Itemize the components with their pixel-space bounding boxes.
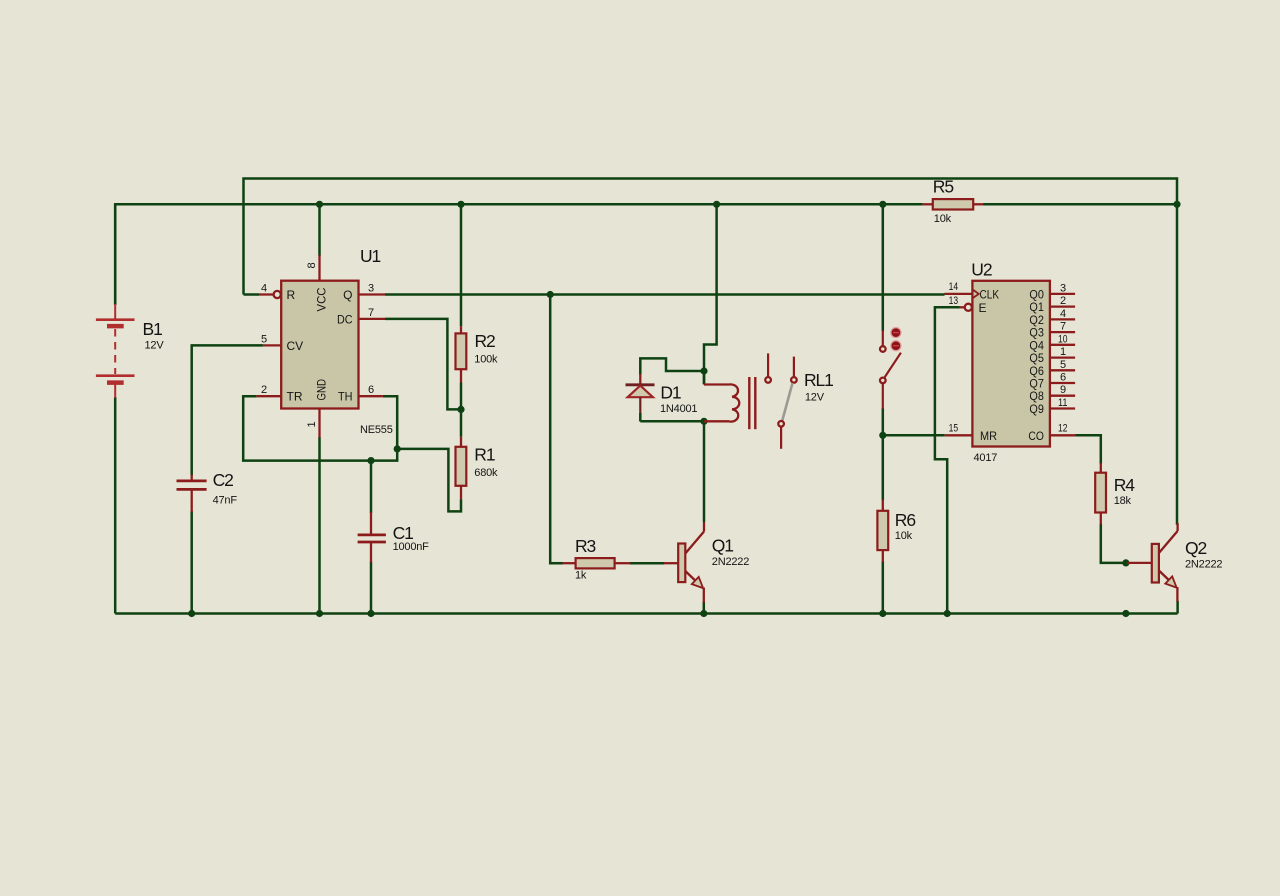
junction node ground rail / C2 (188, 610, 195, 617)
svg-text:3: 3 (368, 283, 374, 295)
wire MR pin15 horizontal (883, 434, 945, 437)
wire D1 top to relay junction (640, 358, 704, 374)
svg-text:B1: B1 (143, 319, 163, 339)
svg-text:U2: U2 (971, 260, 992, 280)
wire battery bottom to ground rail (114, 397, 117, 614)
resistor R3 (563, 558, 631, 568)
junction node switch / MR wire (879, 432, 886, 439)
junction node VCC rail / R2 (457, 201, 464, 208)
resistor R4 (1095, 463, 1106, 525)
svg-text:10k: 10k (934, 213, 952, 225)
diode D1 1N4001 (626, 374, 655, 421)
wire top rail 1 (R5 right to pin4 R net) (244, 179, 1178, 525)
relay RL1 NC contact (765, 353, 771, 382)
svg-text:4017: 4017 (974, 452, 998, 464)
pin 8 VCC stub (318, 255, 320, 281)
svg-text:7: 7 (368, 307, 374, 319)
transistor Q2 2N2222 (1127, 523, 1178, 602)
pin Q4 stub (pin 10) (1029, 333, 1075, 352)
svg-text:18k: 18k (1114, 495, 1132, 507)
svg-text:4: 4 (261, 283, 267, 295)
pin 4 R stub with inversion circle (259, 291, 281, 298)
wire CO pin12 to R4 (1075, 435, 1101, 464)
svg-text:VCC: VCC (315, 287, 329, 311)
capacitor C2 (177, 475, 207, 513)
svg-text:2N2222: 2N2222 (712, 556, 749, 568)
wire R1 bottom loop to TH net (396, 449, 461, 512)
switch bottom contact (880, 378, 886, 409)
wire U1 pin4 stub horizontal (244, 293, 260, 296)
pin 1 GND stub (318, 409, 320, 438)
svg-text:1: 1 (1060, 346, 1066, 358)
wire bottom ground rail (115, 612, 1177, 615)
svg-text:C1: C1 (393, 523, 414, 543)
junction node VCC rail / pin8 (316, 201, 323, 208)
pushbutton switch actuator dots (891, 328, 901, 351)
junction node TH vertical / R1 bottom branch (394, 445, 401, 452)
svg-text:12: 12 (1058, 423, 1068, 435)
IC U2 4017 body (972, 281, 1050, 447)
svg-text:D1: D1 (660, 383, 681, 403)
wire Q output net (pin3 to CLK) (385, 293, 945, 296)
svg-text:13: 13 (949, 295, 959, 307)
svg-text:RL1: RL1 (804, 370, 833, 390)
pin Q0 stub (pin 3) (1029, 282, 1075, 301)
junction node D1 top / relay coil top (700, 367, 707, 374)
wire R4 bottom to Q2 base (1101, 524, 1127, 563)
svg-text:680k: 680k (474, 467, 498, 479)
pin Q8 stub (pin 9) (1029, 384, 1075, 403)
pin 3 Q stub (359, 293, 386, 295)
wire E pin13 net down to ground (935, 307, 960, 613)
pin 7 DC stub (359, 318, 386, 320)
wire MR junction to R6 (882, 434, 885, 500)
svg-text:R5: R5 (933, 177, 954, 197)
svg-text:1000nF: 1000nF (393, 541, 430, 553)
svg-text:47nF: 47nF (213, 495, 238, 507)
junction node Q2 base wire (1122, 559, 1129, 566)
svg-text:10k: 10k (895, 530, 913, 542)
svg-text:6: 6 (1060, 372, 1066, 384)
svg-text:5: 5 (1060, 359, 1066, 371)
pin Q3 stub (pin 7) (1029, 321, 1075, 340)
wire CV pin5 to C2 (192, 345, 263, 475)
svg-text:14: 14 (949, 281, 959, 293)
svg-text:E: E (979, 301, 987, 315)
pin Q6 stub (pin 5) (1029, 359, 1075, 378)
wire R2 bottom to junction (460, 383, 463, 411)
svg-text:7: 7 (1060, 321, 1066, 333)
wire R6 bottom to ground (882, 561, 885, 613)
wire R3 left green segment (550, 562, 563, 565)
svg-text:GND: GND (315, 379, 329, 401)
wire Q2 emitter to ground rail (1176, 601, 1179, 614)
svg-text:2: 2 (261, 384, 267, 396)
svg-text:R1: R1 (474, 445, 495, 465)
svg-text:12V: 12V (145, 340, 165, 352)
junction node D1 bottom / relay coil bottom / Q1 collector (700, 418, 707, 425)
transistor Q1 2N2222 (664, 522, 704, 603)
svg-text:1N4001: 1N4001 (660, 403, 697, 415)
wire R1 top from junction (460, 408, 463, 436)
svg-text:TR: TR (287, 390, 303, 404)
pin 5 CV stub (263, 344, 281, 346)
battery B1 (96, 204, 135, 398)
relay RL1 blade (782, 383, 792, 421)
relay RL1 coil (704, 384, 739, 421)
pin 12 CO stub (1050, 434, 1075, 436)
resistor R6 (877, 500, 888, 563)
capacitor C1 (358, 512, 386, 563)
pin Q7 stub (pin 6) (1029, 372, 1075, 391)
svg-text:NE555: NE555 (360, 424, 393, 436)
svg-text:15: 15 (949, 423, 959, 435)
junction node ground rail / E net (944, 610, 951, 617)
wire C1 bottom to ground (370, 562, 373, 614)
svg-text:6: 6 (368, 384, 374, 396)
svg-text:4: 4 (1060, 308, 1066, 320)
pin 14 CLK stub with clock arrow (945, 289, 979, 298)
svg-text:R2: R2 (475, 331, 496, 351)
wire R2 top VCC feed (460, 204, 463, 326)
svg-text:R3: R3 (575, 536, 596, 556)
junction node ground rail / C1 (367, 610, 374, 617)
wire DC pin7 to R1/R2 junction (385, 319, 460, 410)
op-amp U1 NE555 body (281, 281, 358, 409)
svg-text:3: 3 (1060, 282, 1066, 294)
junction node R5 right / top rail vertical (1173, 201, 1180, 208)
svg-text:R4: R4 (1114, 475, 1136, 495)
junction node VCC rail / relay feed (713, 201, 720, 208)
junction node VCC rail / switch feed (879, 201, 886, 208)
junction node Q net / R3 branch (547, 291, 554, 298)
wire VCC rail 2 right section (R5 right side) (983, 203, 1177, 206)
wire relay top junction down to coil (703, 371, 706, 385)
svg-text:12V: 12V (805, 392, 825, 404)
junction node TR net / C1 branch (367, 457, 374, 464)
wire R3 right to Q1 base (630, 562, 665, 565)
svg-text:MR: MR (980, 429, 997, 443)
svg-text:TH: TH (338, 390, 353, 404)
pin 2 TR stub (256, 395, 281, 397)
wire switch bottom to MR junction (882, 408, 885, 436)
svg-text:Q2: Q2 (1185, 538, 1207, 558)
wire U1 pin8 VCC feed (318, 204, 321, 256)
pin Q2 stub (pin 4) (1029, 308, 1075, 327)
wire D1 bottom to relay bottom junction (640, 420, 704, 421)
pin 15 MR stub (945, 434, 973, 436)
svg-text:1: 1 (306, 421, 318, 427)
svg-text:8: 8 (306, 262, 318, 268)
wire U1 pin1 GND to ground rail (318, 437, 321, 614)
wire relay coil VCC feed (704, 204, 717, 384)
resistor R1 (456, 437, 467, 499)
svg-text:R6: R6 (895, 510, 916, 530)
svg-text:5: 5 (261, 333, 267, 345)
svg-text:U1: U1 (360, 246, 381, 266)
pin Q1 stub (pin 2) (1029, 295, 1075, 314)
pin Q9 stub (pin 11) (1029, 397, 1075, 416)
svg-text:11: 11 (1058, 397, 1068, 409)
pin 6 TH stub (359, 395, 383, 397)
resistor R2 (456, 326, 467, 382)
svg-text:9: 9 (1060, 384, 1066, 396)
svg-text:10: 10 (1058, 333, 1068, 345)
resistor R5 (923, 199, 984, 209)
wire TR pin2 net (243, 396, 397, 460)
pin 13 E stub with inversion circle (960, 304, 972, 311)
svg-text:2: 2 (1060, 295, 1066, 307)
wire C1 branch from TR net (370, 461, 373, 513)
wire switch feed from VCC rail (882, 204, 885, 331)
wire relay bottom junction down to Q1 collector (703, 421, 706, 522)
relay RL1 common pole (778, 421, 784, 449)
wire Q1 emitter to ground (703, 602, 706, 614)
svg-text:CO: CO (1028, 429, 1044, 443)
svg-text:Q: Q (343, 288, 352, 302)
wire C2 bottom to ground (190, 511, 193, 613)
svg-text:Q9: Q9 (1029, 402, 1044, 416)
svg-text:2N2222: 2N2222 (1185, 559, 1222, 571)
junction node ground rail / U1 pin1 (316, 610, 323, 617)
svg-text:100k: 100k (474, 354, 498, 366)
pin Q5 stub (pin 1) (1029, 346, 1075, 365)
wire R3 branch vertical from Q net (550, 295, 562, 564)
svg-text:R: R (287, 288, 296, 302)
svg-text:C2: C2 (213, 470, 234, 490)
switch blade (884, 353, 901, 378)
junction node R2/R1/DC (457, 406, 464, 413)
relay RL1 NO contact (791, 357, 797, 383)
junction node ground rail / Q1 emitter (700, 610, 707, 617)
svg-text:DC: DC (337, 312, 353, 326)
wire VCC rail 2 left section (115, 204, 922, 304)
svg-text:CLK: CLK (980, 287, 1000, 301)
junction node ground rail below Q2 base (1122, 610, 1129, 617)
svg-text:Q1: Q1 (712, 536, 734, 556)
svg-text:CV: CV (287, 339, 304, 353)
junction node ground rail / R6 (879, 610, 886, 617)
switch top contact (880, 330, 886, 351)
relay RL1 core bars (749, 377, 755, 429)
svg-text:1k: 1k (575, 570, 587, 582)
